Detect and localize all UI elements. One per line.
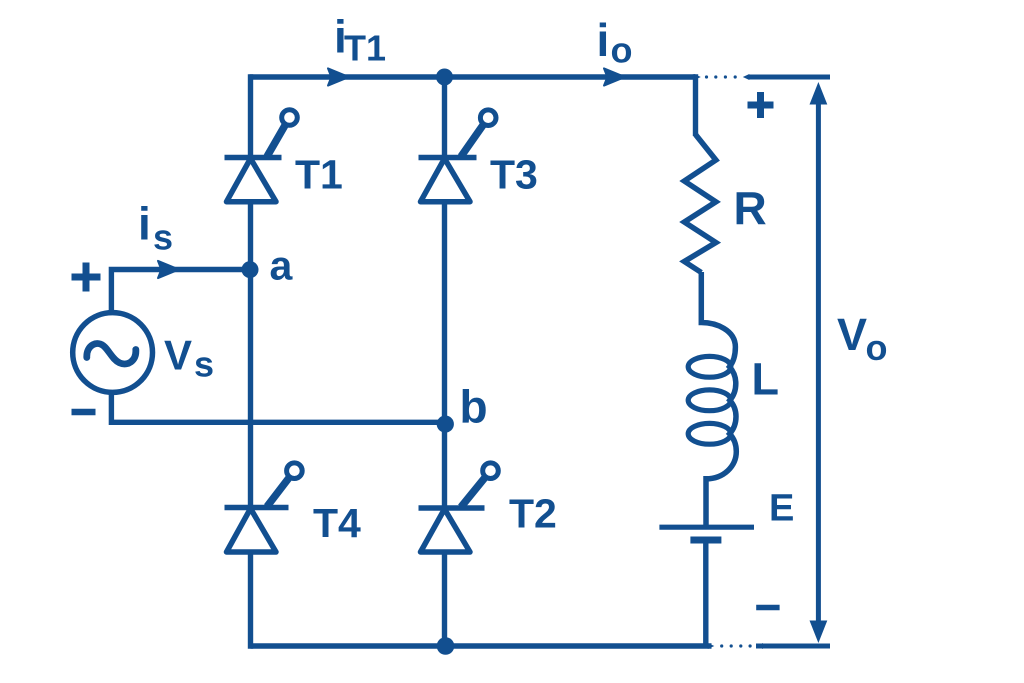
inductor L loop 2 [688,390,731,411]
svg-text:T4: T4 [313,500,361,546]
wire left column upper T1 anode lead [248,74,253,157]
node top junction dot [436,69,453,86]
svg-text:T1: T1 [344,28,386,69]
dots top break [705,75,708,78]
break nub bottom left [708,643,715,649]
arrow Vo top [810,82,828,105]
battery E bottom lead [703,544,708,647]
inductor L loop 1 [688,356,731,377]
battery E short plate [690,537,721,544]
wire top rail [250,74,696,79]
inductor L coil spine [701,272,736,527]
arrow current io [604,68,625,85]
thyristor T1 [225,155,282,161]
thyristor T2 [419,505,485,511]
AC source sine wave [87,344,136,364]
arrow Vo bottom [810,621,828,644]
node a dot [242,261,259,278]
Vo dimension line [816,100,821,624]
inductor L loop 3 [688,423,731,444]
wire left column lower T4 to bottom rail [248,552,253,649]
wire bottom rail [251,643,712,648]
minus sign source [72,409,96,416]
dots bottom break [720,644,723,647]
svg-text:V: V [837,309,867,360]
wire left column middle T1 to node a to T4 [248,202,253,508]
node bottom junction dot [437,637,455,655]
svg-text:L: L [752,353,780,404]
svg-text:i: i [597,14,610,66]
svg-text:T2: T2 [509,491,557,537]
svg-text:s: s [153,217,173,258]
break nub bottom right [757,643,764,649]
AC source Vs circle [73,313,153,393]
plus sign source [72,263,101,292]
arrow current iT1 [328,68,349,85]
svg-text:o: o [611,30,633,71]
svg-text:a: a [270,243,294,289]
svg-text:i: i [138,198,151,250]
svg-text:V: V [164,332,192,379]
thyristor T3 [419,155,477,161]
battery E long plate [659,525,754,530]
break nub top right [743,74,750,80]
arrow current is [158,261,179,278]
wire load branch top lead [693,74,698,136]
svg-text:s: s [194,344,214,385]
node b dot [437,416,454,433]
wire middle column T3 to node b to T2 [442,202,447,508]
wire middle column lower T2 to bottom rail [442,552,447,646]
break nub top left [694,74,701,80]
wire middle column upper T3 lead [442,77,447,158]
wire bottom right segment [756,644,830,649]
resistor R [684,135,716,273]
wire source minus lead to node b [111,394,443,422]
svg-text:b: b [460,381,488,433]
minus sign load [756,605,779,611]
wire source plus lead to node a [111,270,249,312]
svg-text:R: R [734,182,767,234]
svg-text:E: E [769,488,794,530]
svg-text:T1: T1 [295,152,343,198]
thyristor T4 [225,505,289,511]
svg-text:o: o [866,327,888,368]
svg-text:T3: T3 [490,152,538,198]
plus sign load [748,92,774,118]
wire top right segment [748,75,830,80]
